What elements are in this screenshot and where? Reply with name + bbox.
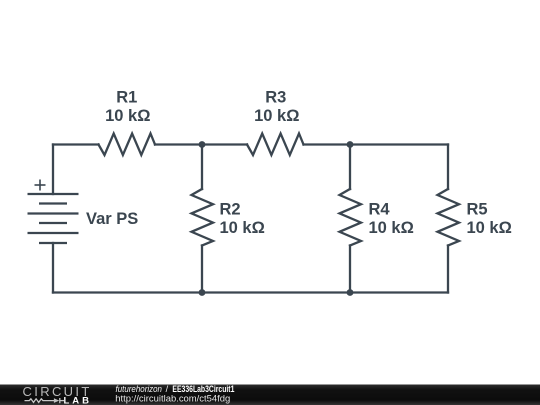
svg-text:R1: R1: [116, 89, 137, 107]
svg-text:R2: R2: [220, 201, 241, 219]
battery V1 Var PS plates: [28, 194, 79, 243]
resistor R3: [247, 134, 304, 156]
svg-text:10 kΩ: 10 kΩ: [220, 219, 265, 237]
svg-text:EE336Lab3Circuit1: EE336Lab3Circuit1: [172, 384, 234, 394]
node dot top R4: [347, 141, 354, 148]
wire battery top lead: [52, 145, 54, 195]
logo diode triangle: [54, 398, 59, 403]
svg-text:10 kΩ: 10 kΩ: [369, 219, 414, 237]
wire bottom rail: [53, 291, 448, 293]
node dot bottom R2: [199, 289, 206, 296]
svg-text:R4: R4: [369, 201, 391, 219]
svg-text:R3: R3: [265, 89, 286, 107]
node dot bottom R4: [347, 289, 354, 296]
wire R2 bottom lead: [201, 246, 203, 293]
wire R5 top lead: [447, 145, 449, 190]
label R1: [86, 89, 512, 238]
node dot top R2: [199, 141, 206, 148]
wire R2 top lead: [201, 145, 203, 190]
svg-text:futurehorizon: futurehorizon: [116, 384, 163, 394]
wire R4 bottom lead: [349, 246, 351, 293]
wire R4 top lead: [349, 145, 351, 190]
svg-text:R5: R5: [467, 201, 488, 219]
battery plus sign: [35, 180, 46, 191]
resistor R5: [438, 189, 460, 246]
wire R5 bottom lead: [447, 246, 449, 293]
svg-text:10 kΩ: 10 kΩ: [105, 107, 150, 125]
svg-text:10 kΩ: 10 kΩ: [254, 107, 299, 125]
logo squiggle resistor: [25, 398, 65, 403]
svg-text:http://circuitlab.com/ct54fdg: http://circuitlab.com/ct54fdg: [115, 394, 230, 404]
svg-text:LAB: LAB: [64, 395, 93, 405]
resistor R2: [192, 189, 214, 246]
wire top rail right: [304, 143, 449, 145]
svg-text:Var PS: Var PS: [86, 210, 138, 228]
wire battery bottom lead: [52, 243, 54, 293]
wire top rail left: [53, 143, 99, 145]
wire top rail middle: [155, 143, 247, 145]
resistor R4: [340, 189, 362, 246]
resistor R1: [99, 134, 156, 156]
svg-text:10 kΩ: 10 kΩ: [467, 219, 512, 237]
